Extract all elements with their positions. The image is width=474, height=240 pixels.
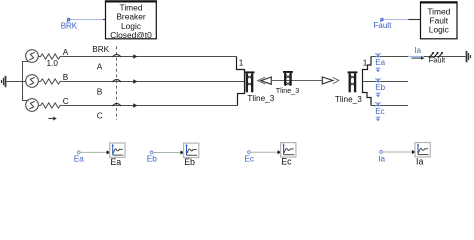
- resistor R1: [38, 54, 62, 59]
- svg-text:Ia: Ia: [416, 157, 423, 167]
- svg-text:B: B: [97, 86, 103, 96]
- svg-text:B: B: [63, 73, 69, 82]
- wire phase C: [62, 105, 237, 107]
- breaker BRK contact B: [112, 80, 121, 82]
- svg-text:BRK: BRK: [92, 45, 109, 54]
- svg-text:Ea: Ea: [110, 157, 121, 167]
- svg-text:Ec: Ec: [244, 155, 254, 164]
- tline arrowhead left: [258, 77, 272, 84]
- wire phase C right: [371, 105, 408, 107]
- flow arrow phase A: [133, 54, 137, 58]
- resistor R2: [38, 79, 62, 84]
- svg-text:Ec: Ec: [375, 107, 384, 116]
- source bus wire: [23, 62, 29, 101]
- source Es1: [26, 50, 39, 63]
- svg-text:Fault: Fault: [429, 55, 445, 64]
- fault F1: [429, 52, 443, 58]
- wire phase B: [62, 81, 244, 83]
- output channel Ea: [74, 143, 125, 167]
- svg-text:Ia: Ia: [378, 154, 385, 163]
- wire phase B right: [363, 81, 409, 83]
- flow arrow phase B: [133, 79, 137, 83]
- wire phase A right (ammeter to ground): [424, 56, 466, 58]
- output channel Ia: [378, 143, 430, 167]
- output channel Ec: [244, 143, 296, 167]
- tline interface U1 outline: [237, 57, 245, 106]
- breaker BRK contact C: [112, 104, 121, 106]
- ground GND1: [2, 76, 6, 87]
- source Es2: [23, 75, 39, 88]
- signal label BRK: [61, 18, 106, 30]
- svg-text:Eb: Eb: [184, 157, 195, 167]
- breaker BRK dashed line: [116, 46, 118, 120]
- svg-text:Eb: Eb: [147, 154, 157, 163]
- signal label Fault: [374, 18, 421, 30]
- flow arrow phase C: [133, 103, 137, 107]
- svg-text:BRK: BRK: [61, 22, 78, 31]
- svg-text:1: 1: [239, 59, 244, 68]
- svg-text:Ia: Ia: [414, 46, 421, 55]
- svg-text:Tline_3: Tline_3: [247, 94, 274, 103]
- svg-text:C: C: [63, 97, 69, 106]
- block Timed Fault Logic: [420, 2, 458, 38]
- tower icon U2: [348, 71, 358, 92]
- svg-text:Closed@t0: Closed@t0: [110, 30, 152, 40]
- svg-text:Logic: Logic: [429, 25, 449, 35]
- svg-text:Tline_3: Tline_3: [335, 95, 362, 104]
- svg-text:C: C: [97, 110, 103, 120]
- svg-text:A: A: [63, 48, 69, 57]
- wire ground to source bus: [6, 81, 22, 83]
- tower icon U1: [245, 71, 255, 92]
- tline mid tower T1: [283, 71, 293, 86]
- svg-text:Eb: Eb: [375, 83, 385, 92]
- ground GND2: [467, 51, 471, 62]
- voltmeter Eb: [375, 78, 381, 97]
- svg-text:1.0: 1.0: [47, 59, 59, 68]
- svg-text:Ea: Ea: [375, 58, 385, 67]
- wire phase A: [62, 56, 236, 58]
- wire phase A right (block to ammeter): [371, 56, 408, 58]
- resistor R3: [38, 103, 62, 108]
- breaker BRK contact A: [112, 55, 121, 57]
- svg-text:Ec: Ec: [281, 157, 292, 167]
- voltmeter Ec: [375, 102, 381, 121]
- source Es3: [26, 99, 39, 112]
- svg-text:Fault: Fault: [374, 21, 393, 30]
- flow arrow below source C: [49, 116, 57, 120]
- voltmeter Ea: [375, 53, 381, 72]
- tline interface U2 outline: [363, 57, 372, 106]
- svg-text:Ea: Ea: [74, 154, 84, 163]
- block Timed Breaker Logic: [105, 1, 157, 40]
- output channel Eb: [147, 143, 199, 167]
- svg-text:1: 1: [363, 59, 368, 68]
- svg-text:Tline_3: Tline_3: [276, 86, 300, 95]
- tline arrowhead right: [322, 77, 338, 84]
- wire tline span: [271, 80, 322, 82]
- svg-text:A: A: [97, 61, 103, 71]
- ammeter Ia: [408, 56, 424, 58]
